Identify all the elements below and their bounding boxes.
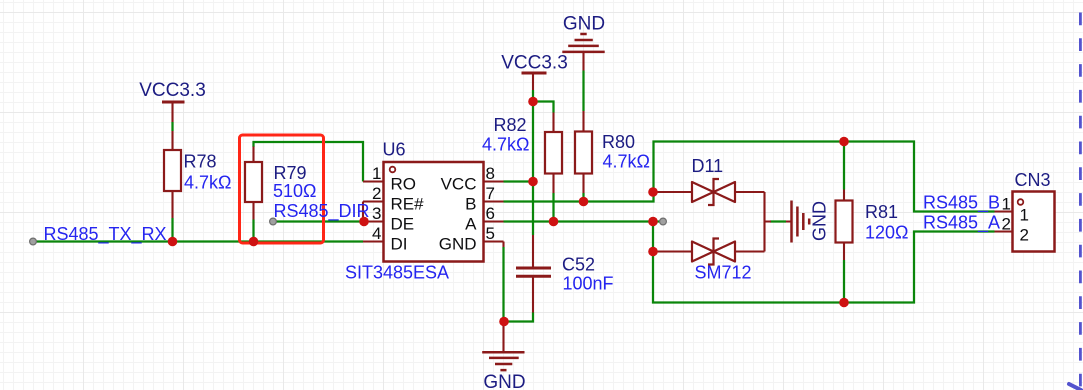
svg-text:DI: DI (391, 235, 408, 254)
svg-text:4.7kΩ: 4.7kΩ (603, 152, 650, 172)
svg-text:R78: R78 (184, 152, 217, 172)
svg-text:1: 1 (372, 164, 381, 183)
svg-text:R79: R79 (274, 163, 307, 183)
svg-text:RE#: RE# (391, 195, 425, 214)
svg-text:RS485_B: RS485_B (923, 193, 1000, 214)
svg-text:3: 3 (372, 204, 381, 223)
svg-text:GND: GND (563, 14, 605, 35)
svg-text:RS485_DIR: RS485_DIR (274, 201, 370, 222)
svg-text:SM712: SM712 (695, 263, 752, 283)
svg-text:D11: D11 (692, 156, 724, 176)
svg-text:VCC3.3: VCC3.3 (501, 53, 568, 74)
svg-text:100nF: 100nF (563, 274, 614, 294)
svg-text:GND: GND (483, 372, 525, 390)
svg-text:4.7kΩ: 4.7kΩ (184, 173, 231, 193)
svg-text:RS485_TX_RX: RS485_TX_RX (44, 224, 167, 245)
svg-text:1: 1 (1020, 206, 1029, 225)
svg-text:VCC: VCC (441, 175, 477, 194)
svg-text:1: 1 (1002, 195, 1011, 214)
svg-text:SIT3485ESA: SIT3485ESA (345, 263, 449, 283)
svg-text:R81: R81 (865, 202, 898, 222)
svg-text:R82: R82 (494, 115, 527, 135)
svg-text:VCC3.3: VCC3.3 (139, 80, 206, 101)
svg-text:B: B (465, 195, 476, 214)
svg-text:2: 2 (372, 184, 381, 203)
svg-text:8: 8 (486, 164, 495, 183)
svg-text:2: 2 (1020, 226, 1029, 245)
svg-text:4.7kΩ: 4.7kΩ (482, 135, 529, 155)
svg-text:GND: GND (439, 235, 477, 254)
svg-text:R80: R80 (602, 132, 635, 152)
svg-text:7: 7 (486, 184, 495, 203)
svg-text:GND: GND (810, 201, 830, 241)
svg-text:510Ω: 510Ω (273, 181, 317, 201)
svg-text:U6: U6 (383, 140, 406, 160)
svg-text:120Ω: 120Ω (865, 223, 909, 243)
svg-text:CN3: CN3 (1015, 170, 1051, 190)
svg-text:2: 2 (1002, 215, 1011, 234)
svg-text:RO: RO (391, 175, 417, 194)
svg-text:A: A (465, 215, 477, 234)
svg-text:6: 6 (486, 204, 495, 223)
svg-text:5: 5 (486, 224, 495, 243)
svg-text:C52: C52 (562, 255, 595, 275)
svg-text:RS485_A: RS485_A (923, 213, 1000, 234)
svg-text:DE: DE (391, 215, 415, 234)
svg-text:4: 4 (372, 224, 381, 243)
